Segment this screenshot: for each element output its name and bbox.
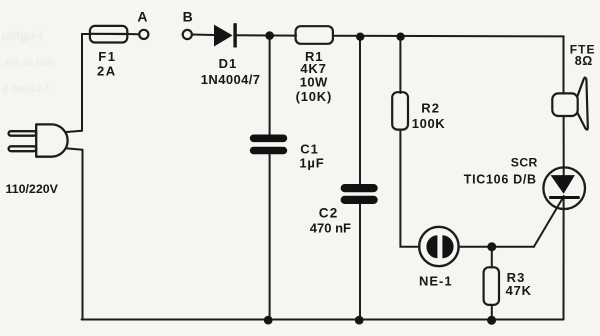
capacitor C1	[254, 138, 284, 150]
wire plug upper lead	[67, 131, 83, 132]
node C2 bottom	[355, 316, 364, 325]
svg-text:1N4004/7: 1N4004/7	[201, 72, 261, 87]
svg-text:SCR: SCR	[511, 156, 538, 170]
diode D1	[214, 23, 237, 47]
wire gate node to R3	[491, 247, 493, 268]
svg-text:2A: 2A	[97, 64, 117, 79]
wire bottom rail	[82, 319, 564, 321]
svg-text:B: B	[183, 8, 193, 24]
svg-text:D1: D1	[219, 56, 238, 71]
svg-text:A: A	[137, 8, 147, 24]
svg-text:110/220V: 110/220V	[6, 182, 59, 196]
terminal B	[183, 30, 192, 39]
node C1 bottom	[264, 316, 273, 325]
wire R3 to bottom rail	[491, 305, 493, 320]
wire fuse to terminal A	[127, 33, 140, 35]
svg-text:47K: 47K	[506, 283, 532, 298]
wire speaker to SCR	[563, 116, 565, 176]
node after D1	[265, 31, 274, 40]
svg-text:C1: C1	[300, 142, 319, 157]
svg-text:(10K): (10K)	[296, 89, 333, 104]
wire C2 branch upper	[359, 36, 361, 184]
resistor R1	[296, 26, 333, 44]
wire left rail upper	[82, 34, 91, 131]
terminal A	[139, 30, 148, 39]
wire neon lamp to gate node	[458, 246, 534, 248]
wire R1 to top-right corner and right rail down to speaker	[333, 36, 563, 94]
SCR TIC106	[543, 167, 585, 209]
wire C1 branch lower	[269, 154, 271, 320]
resistor R2	[392, 92, 408, 129]
neon lamp NE-1	[419, 227, 458, 266]
svg-text:e oxisz-l: e oxisz-l	[2, 81, 49, 95]
wire R2 bottom to neon lamp	[400, 130, 419, 247]
svg-text:TIC106 D/B: TIC106 D/B	[464, 172, 537, 186]
svg-text:F1: F1	[98, 49, 116, 64]
svg-text:1µF: 1µF	[299, 156, 324, 171]
resistor R3	[484, 267, 499, 305]
svg-text:100K: 100K	[412, 116, 445, 131]
svg-text:NE-1: NE-1	[419, 273, 453, 288]
node R3 bottom	[487, 316, 496, 325]
speaker FTE	[552, 78, 588, 130]
wire left rail lower	[82, 150, 84, 320]
svg-text:10W: 10W	[300, 75, 328, 90]
node R2 top	[396, 33, 404, 41]
svg-text:R2: R2	[421, 100, 440, 115]
fuse F1	[90, 26, 127, 43]
plug 110/220V	[9, 124, 68, 156]
wire C1 branch upper	[269, 36, 271, 136]
node C2 top	[356, 33, 364, 41]
wire SCR gate diagonal	[534, 197, 563, 247]
wire R2 branch upper	[399, 36, 401, 93]
wire diode to R1	[237, 34, 297, 36]
svg-text:8Ω: 8Ω	[575, 54, 593, 68]
wire SCR cathode down to bottom rail	[563, 196, 565, 320]
wire terminal B to diode	[192, 34, 214, 37]
svg-text:C2: C2	[319, 206, 339, 221]
svg-text:470 nF: 470 nF	[310, 221, 351, 236]
svg-text:.nv.-o um: .nv.-o um	[2, 55, 54, 69]
capacitor C2	[345, 188, 374, 200]
wire plug lower lead	[67, 148, 83, 149]
faint print bleed-through, decorative	[2, 29, 54, 95]
node gate/R3	[487, 242, 496, 251]
wire C2 branch lower	[359, 204, 361, 320]
svg-text:uilfgu-f: uilfgu-f	[2, 29, 44, 43]
